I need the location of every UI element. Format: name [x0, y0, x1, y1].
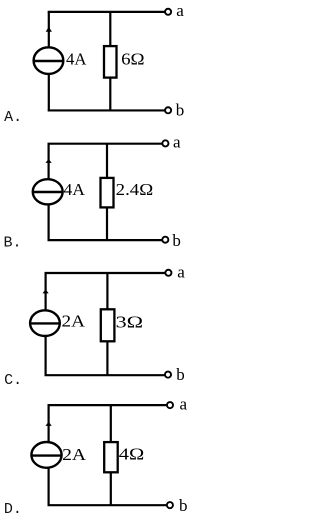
svg-text:A.: A.	[4, 109, 22, 126]
wire: bottom rail of circuit C (node b rail)	[45, 374, 169, 376]
wire: left branch upper segment, circuit B	[47, 144, 49, 180]
svg-text:4A: 4A	[66, 50, 87, 69]
current source ID = 2A (circle with horizontal bar)	[31, 442, 61, 468]
terminal b (open circle), circuit D	[167, 502, 173, 508]
wire: bottom rail of circuit D (node b rail)	[48, 504, 170, 506]
wire: resistor branch upper segment, circuit C	[106, 273, 108, 309]
wire: resistor branch upper segment, circuit A	[109, 12, 111, 46]
svg-text:4Ω: 4Ω	[119, 445, 145, 464]
svg-text:3Ω: 3Ω	[116, 312, 143, 331]
wire: left branch lower segment, circuit A	[48, 73, 50, 110]
resistor RC = 3Ω (rectangle body)	[101, 309, 115, 341]
wire: resistor branch upper segment, circuit B	[106, 144, 108, 178]
wire: top rail of circuit B (node a rail)	[48, 143, 166, 145]
svg-text:a: a	[180, 395, 188, 414]
terminal a (open circle), circuit A	[165, 9, 171, 15]
terminal a (open circle), circuit B	[162, 140, 168, 146]
wire: top rail of circuit D (node a rail)	[48, 404, 171, 406]
wire: bottom rail of circuit A (node b rail)	[48, 109, 168, 111]
wire: left branch lower segment, circuit D	[47, 467, 49, 505]
terminal b (open circle), circuit C	[165, 372, 171, 378]
wire: left branch lower segment, circuit B	[47, 204, 49, 240]
wire: left branch lower segment, circuit C	[44, 336, 46, 376]
svg-text:a: a	[173, 133, 181, 152]
svg-text:b: b	[176, 101, 185, 120]
wire: resistor branch lower segment, circuit A	[109, 78, 111, 111]
terminal a (open circle), circuit D	[167, 402, 173, 408]
resistor RA = 6Ω (rectangle body)	[104, 46, 117, 78]
svg-text:C.: C.	[4, 372, 22, 389]
svg-text:b: b	[172, 231, 181, 250]
terminal b (open circle), circuit A	[165, 107, 171, 113]
wire: resistor branch lower segment, circuit C	[106, 341, 108, 375]
svg-text:6Ω: 6Ω	[121, 50, 145, 69]
svg-text:b: b	[176, 365, 185, 384]
wire: bottom rail of circuit B (node b rail)	[48, 239, 166, 241]
svg-text:b: b	[179, 496, 188, 515]
svg-text:a: a	[176, 1, 184, 20]
wire: left branch upper segment, circuit C	[44, 273, 46, 311]
wire: top rail of circuit A (node a rail)	[48, 11, 168, 13]
current direction arrow (upward), circuit D	[46, 422, 52, 426]
svg-text:2A: 2A	[62, 445, 87, 464]
wire: resistor branch lower segment, circuit B	[106, 207, 108, 240]
terminal b (open circle), circuit B	[162, 237, 168, 243]
current source IA = 4A (circle with horizontal bar)	[34, 47, 64, 74]
current source IB = 4A (circle with horizontal bar)	[33, 179, 63, 204]
current direction arrow (upward), circuit B	[46, 159, 52, 163]
resistor RD = 4Ω (rectangle body)	[104, 442, 118, 472]
svg-text:D.: D.	[4, 501, 22, 518]
svg-text:2.4Ω: 2.4Ω	[116, 180, 154, 199]
wire: resistor branch upper segment, circuit D	[110, 405, 112, 442]
svg-text:a: a	[177, 263, 185, 282]
svg-text:4A: 4A	[64, 180, 86, 199]
current direction arrow (upward), circuit A	[46, 27, 52, 32]
wire: left branch upper segment, circuit A	[48, 12, 50, 48]
resistor RB = 2.4Ω (rectangle body)	[101, 178, 114, 208]
wire: left branch upper segment, circuit D	[47, 405, 49, 442]
wire: resistor branch lower segment, circuit D	[110, 472, 112, 505]
wire: top rail of circuit C (node a rail)	[45, 272, 169, 274]
terminal a (open circle), circuit C	[165, 270, 171, 276]
current source IC = 2A (circle with horizontal bar)	[30, 310, 60, 336]
current direction arrow (upward), circuit C	[43, 289, 49, 293]
svg-text:B.: B.	[4, 234, 22, 251]
svg-text:2A: 2A	[62, 312, 86, 331]
